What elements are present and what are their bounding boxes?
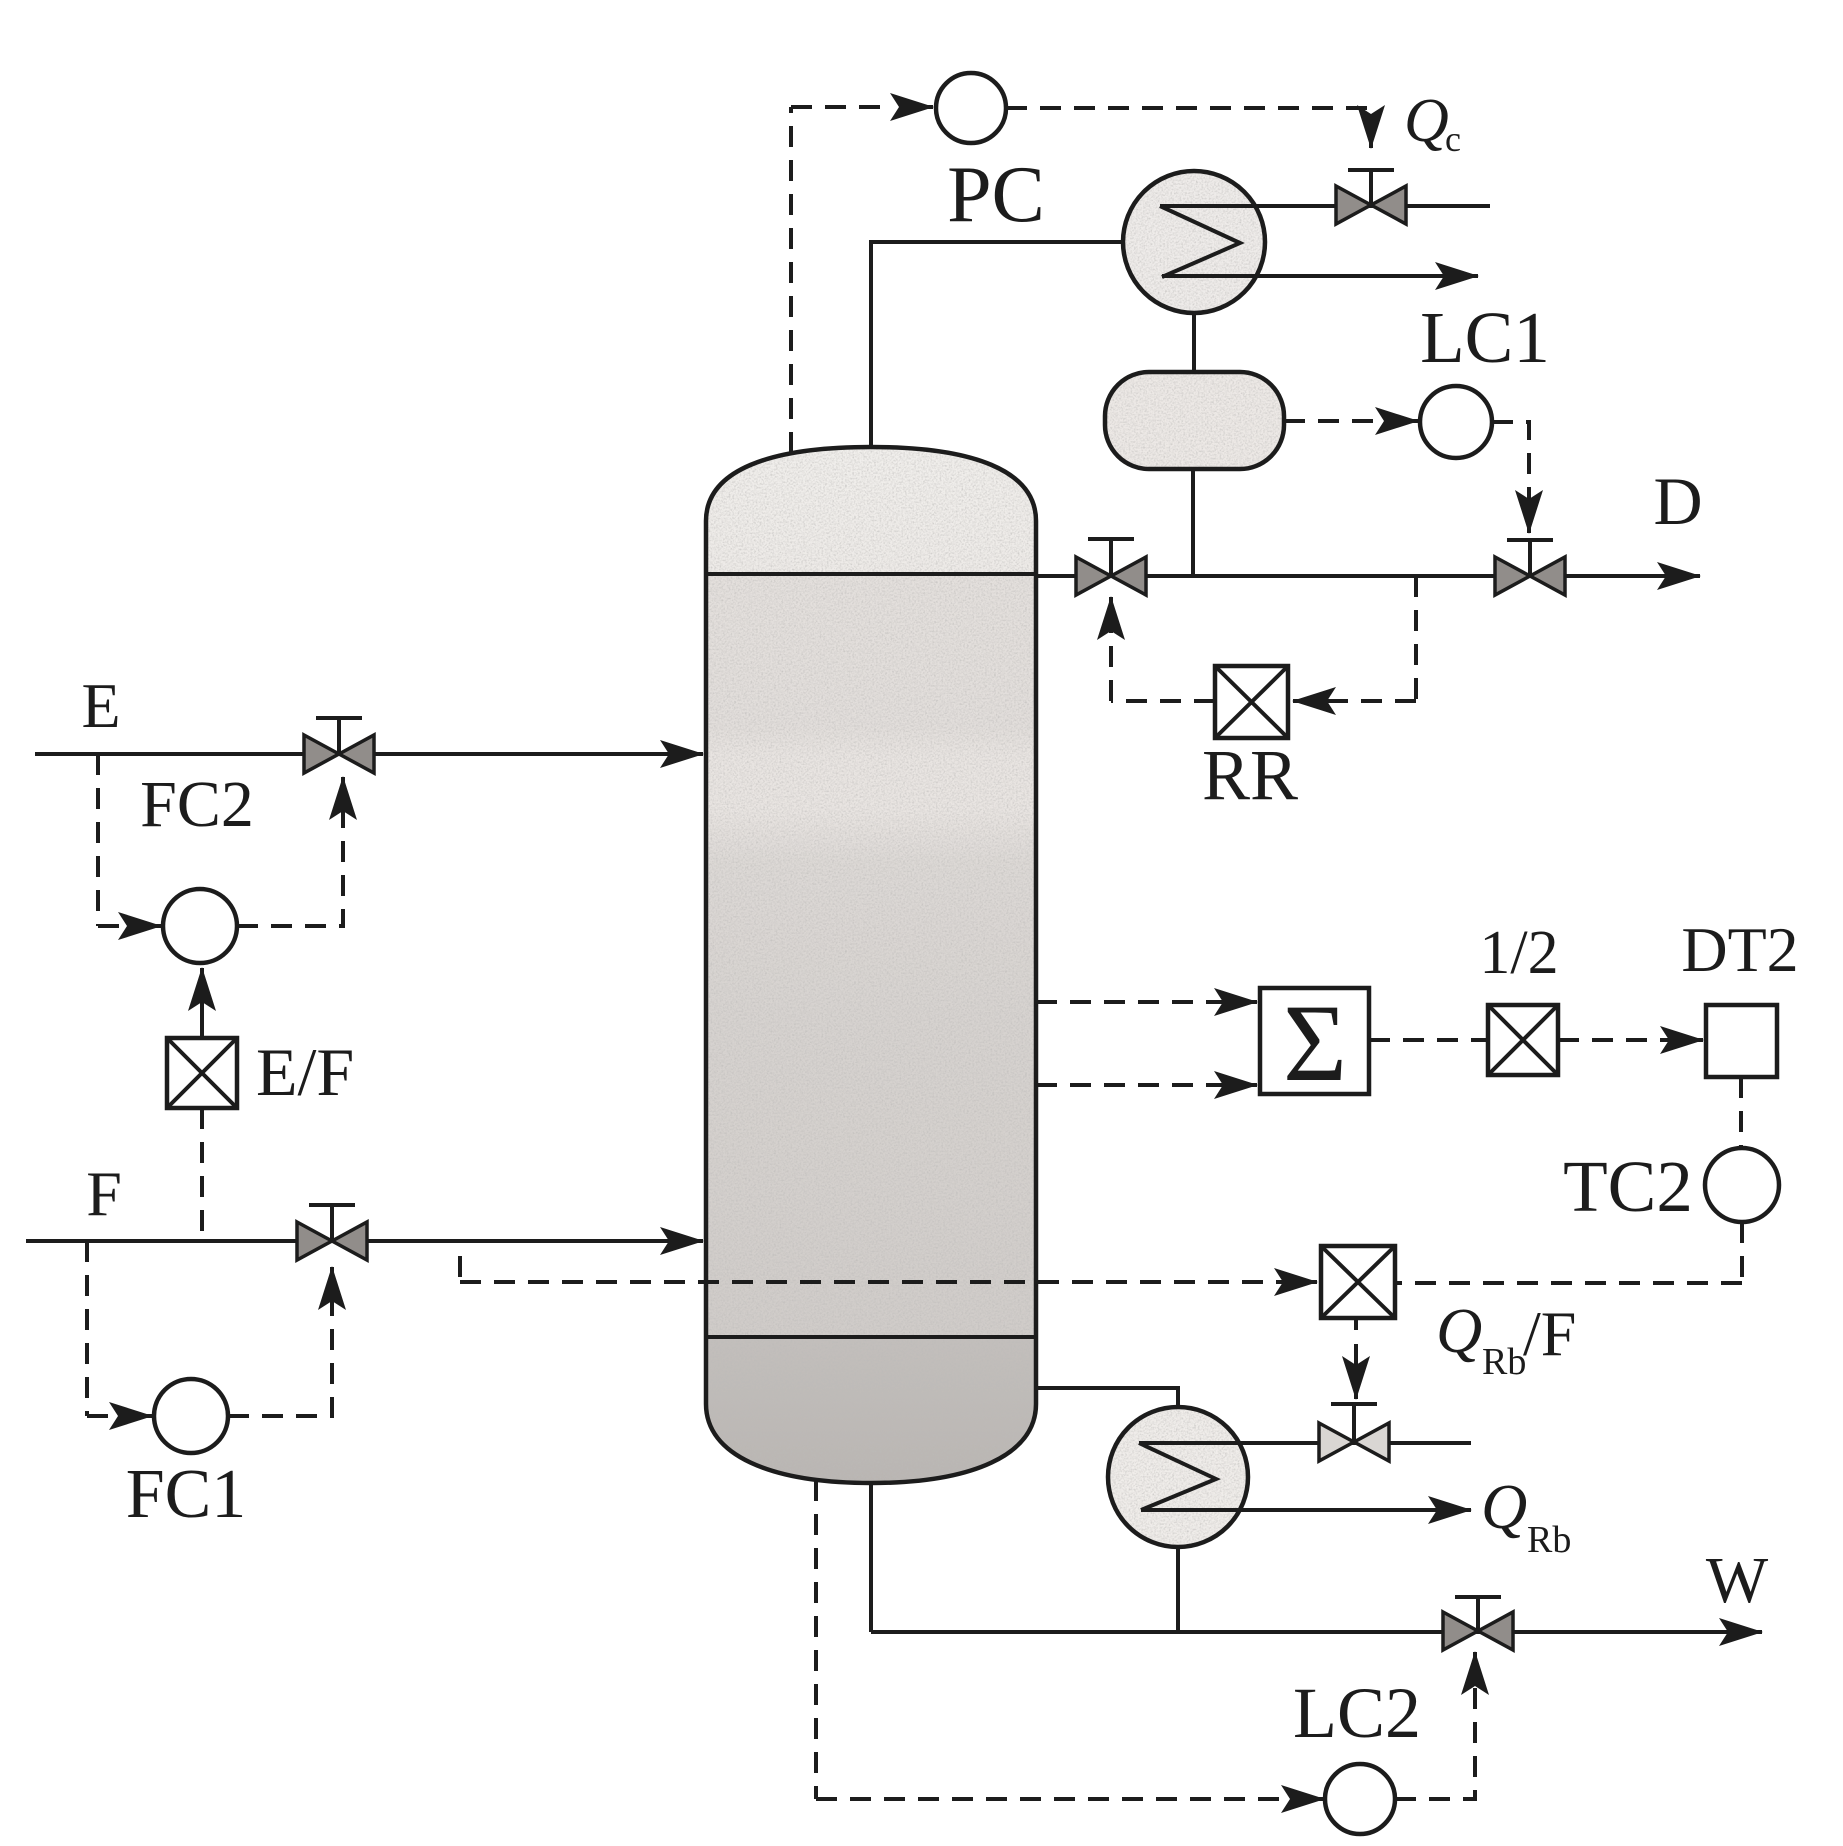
wire QRb heat outlet (1141, 1508, 1471, 1512)
wire DT2 to TC2 (dashed) (1739, 1077, 1743, 1148)
column bottom section line (706, 1335, 1036, 1339)
svg-text:Rb: Rb (1482, 1341, 1526, 1383)
valve F feed (297, 1205, 367, 1260)
svg-text:LC2: LC2 (1293, 1673, 1421, 1753)
wire steam inlet line (1139, 1441, 1471, 1445)
valve steam QRb (1319, 1404, 1389, 1461)
svg-text:PC: PC (947, 151, 1045, 239)
controller PC (936, 73, 1045, 239)
svg-text:DT2: DT2 (1681, 914, 1798, 985)
wire feed line E (35, 752, 703, 756)
svg-text:/F: /F (1523, 1298, 1576, 1369)
valve D distillate (1495, 540, 1565, 595)
wire PC pressure tap (dashed, column dome up and over to PC) (789, 107, 793, 453)
valve Qc coolant (1336, 170, 1406, 224)
svg-text:F: F (86, 1158, 122, 1229)
controller FC2 (163, 889, 237, 963)
svg-text:Σ: Σ (1283, 982, 1347, 1104)
svg-text:Q: Q (1436, 1295, 1482, 1366)
svg-text:E/F: E/F (256, 1034, 354, 1110)
distillation column vessel (706, 447, 1036, 1483)
transmitter box DT2 (1681, 914, 1798, 1077)
multiplier box QRb/F (1321, 1246, 1395, 1318)
wire LC1 level tap (dashed) (1284, 419, 1390, 423)
wire sigma output to 1/2 box (dashed) (1369, 1038, 1488, 1042)
label QRb/F (1436, 1295, 1576, 1383)
svg-text:W: W (1706, 1544, 1769, 1617)
ratio box RR (1202, 666, 1298, 815)
wire QRb/F output to steam valve (1354, 1320, 1358, 1330)
summer box sigma (1260, 982, 1369, 1104)
wire distillate product line D (1036, 574, 1700, 578)
wire bottoms product line W (871, 1630, 1762, 1634)
controller LC1 (1420, 297, 1550, 458)
wire feed line F (26, 1239, 703, 1243)
svg-text:LC1: LC1 (1420, 297, 1550, 378)
wire E/F output up to FC2 setpoint (200, 968, 204, 1038)
wire coolant outlet Qc (1162, 274, 1478, 278)
reboiler (1108, 1407, 1248, 1547)
wire vapor line column top to condenser (871, 242, 1123, 447)
wire LC1 output (dashed down to D valve) (1492, 422, 1529, 500)
wire 1/2 output to DT2 (dashed) (1558, 1038, 1680, 1042)
multiplier box E/F (167, 1034, 354, 1110)
wire FC2 output to E valve (dashed) (237, 800, 343, 926)
wire F measurement to QRb/F multiplier (dashed across column) (460, 1256, 1300, 1282)
wire reboiler feed from column (1036, 1388, 1178, 1408)
wire E flow tap to FC2 (dashed) (98, 754, 140, 926)
wire F flow tap to FC1 (dashed) (87, 1241, 130, 1416)
valve W bottoms (1443, 1597, 1513, 1650)
wire reboiler bottom return (1176, 1547, 1180, 1632)
controller TC2 (1563, 1146, 1779, 1227)
reflux drum (1105, 372, 1284, 469)
svg-text:TC2: TC2 (1563, 1146, 1693, 1227)
wire reflux drum downcomer (1191, 469, 1195, 576)
wire LC2 output to W valve (dashed) (1395, 1680, 1475, 1799)
wire PC output (dashed to Qc valve) (1006, 108, 1371, 118)
svg-text:FC1: FC1 (126, 1456, 247, 1533)
wire coolant inlet line (1160, 204, 1490, 208)
label QRb (1481, 1471, 1571, 1561)
svg-text:Q: Q (1404, 87, 1449, 155)
multiplier box 1/2 (1479, 919, 1558, 1075)
svg-text:c: c (1445, 119, 1461, 159)
column top tray line (706, 572, 1036, 576)
svg-text:E: E (81, 670, 120, 741)
controller FC1 (154, 1379, 228, 1453)
svg-text:1/2: 1/2 (1479, 919, 1558, 987)
wire TC2 output down and left to QRb/F (dashed) (1395, 1222, 1742, 1283)
svg-text:Q: Q (1481, 1471, 1527, 1542)
wire upper temperature tap to sigma (dashed) (1036, 1000, 1240, 1004)
controller LC2 (1293, 1673, 1421, 1834)
wire E/F input from F line (dashed) (200, 1108, 204, 1241)
wire D flow tap to RR (dashed) (1312, 576, 1416, 701)
wire FC1 output to F valve (dashed) (228, 1290, 332, 1416)
svg-text:RR: RR (1202, 735, 1298, 815)
wire lower temperature tap to sigma (dashed) (1036, 1083, 1240, 1087)
wire RR output to reflux valve (dashed) (1111, 625, 1215, 701)
valve reflux (1076, 539, 1146, 595)
wire condensate line condenser to reflux drum (1192, 313, 1196, 372)
condenser (1123, 171, 1265, 313)
wire column bottoms outlet (869, 1483, 873, 1632)
valve E feed (304, 718, 374, 773)
svg-text:D: D (1653, 463, 1702, 539)
wire LC2 level tap (dashed from column bottom) (816, 1480, 1310, 1799)
svg-text:FC2: FC2 (140, 768, 254, 841)
svg-text:Rb: Rb (1527, 1519, 1571, 1561)
